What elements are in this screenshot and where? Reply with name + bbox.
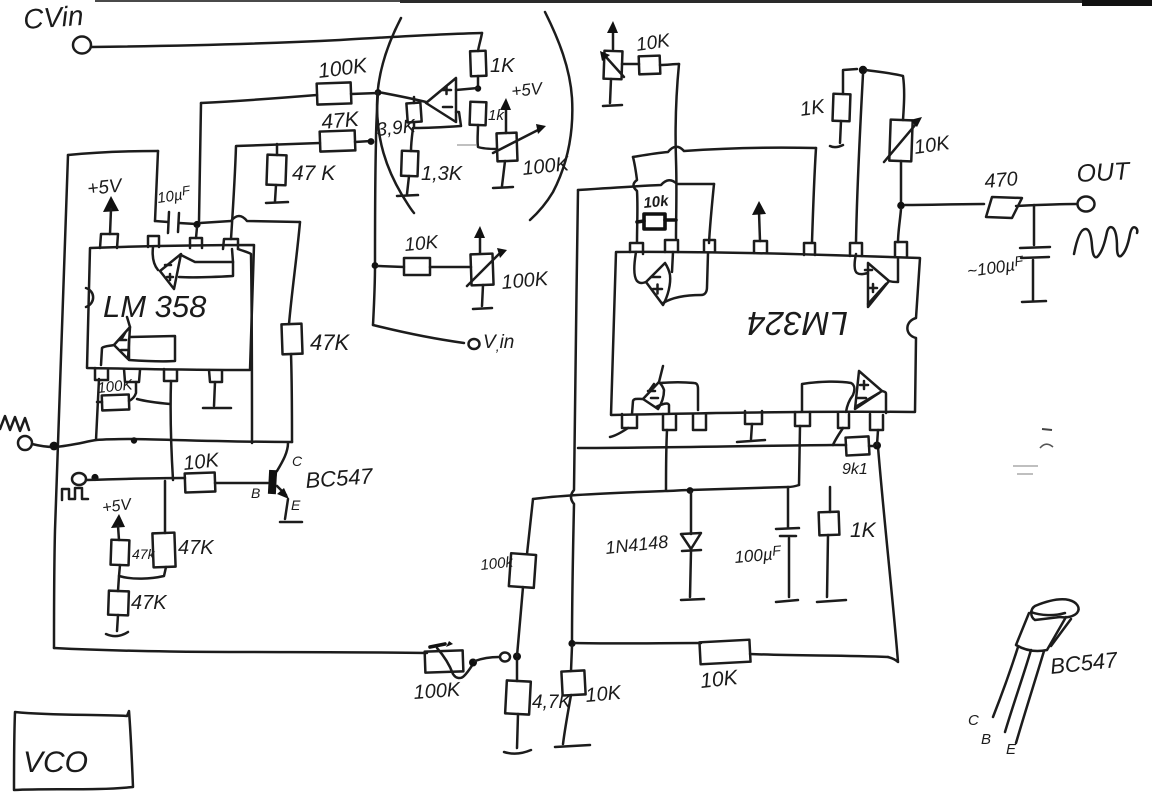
- wire P2 ground: [482, 285, 483, 306]
- node 9k1: [873, 442, 881, 450]
- wire inner box top edge: [633, 147, 816, 157]
- resistor R5 1.3K: [411, 128, 413, 151]
- wire pin2 to cap node: [196, 227, 197, 238]
- pin LM324 top6: [850, 243, 862, 256]
- pin LM324 top2: [665, 240, 678, 252]
- wire square out to R11: [86, 478, 185, 480]
- resistor R13 47K: [152, 533, 175, 568]
- resistor R12 47K small: [111, 540, 130, 566]
- svg-text:VCO: VCO: [23, 746, 88, 779]
- capacitor C3 100uF out: [1033, 205, 1036, 245]
- wire P4 to open circle: [475, 657, 499, 661]
- wire 1k to pot P1: [478, 125, 497, 149]
- ground R7: [266, 202, 288, 203]
- pin LM324 bot2: [663, 414, 676, 430]
- node op+: [475, 85, 481, 91]
- node square out: [91, 474, 98, 481]
- svg-text:C: C: [292, 453, 303, 469]
- transistor Q1 BC547: [277, 443, 288, 471]
- IC U2 LM324 box: [611, 252, 920, 415]
- ground C2: [776, 600, 798, 602]
- pin LM324 top1: [630, 243, 643, 254]
- pin LM324 bot4: [745, 411, 762, 424]
- svg-text:CVin: CVin: [22, 0, 84, 35]
- smudge marks: [1042, 429, 1052, 430]
- wire CVin to 1K top: [91, 33, 482, 47]
- resistor R3 1K: [470, 51, 486, 77]
- svg-text:470: 470: [984, 168, 1019, 193]
- pin LM358 bot1: [95, 368, 108, 380]
- wire 1K drop: [478, 33, 482, 51]
- VCO title box: [14, 711, 133, 790]
- svg-text:+5V: +5V: [510, 79, 544, 101]
- pin LM358 top4: [223, 239, 238, 249]
- resistor R15 100K vertical: [509, 553, 536, 588]
- terminal small: [500, 653, 510, 662]
- node top right: [859, 66, 867, 74]
- wire pin2 bot down: [666, 430, 667, 490]
- svg-text:LM324: LM324: [747, 305, 848, 342]
- svg-text:10k: 10k: [643, 192, 670, 212]
- resistor R9 47K vertical: [281, 324, 302, 355]
- op-amp U2D: [855, 371, 882, 409]
- node on box edge: [50, 442, 59, 451]
- wire pin4 ground stem: [214, 382, 215, 406]
- wire P1 to ground: [502, 161, 505, 186]
- resistor R16 4.7K: [516, 660, 519, 681]
- ground R14: [106, 632, 128, 636]
- node bottom left LM324: [568, 640, 575, 647]
- ground R19: [817, 600, 846, 602]
- svg-text:100k: 100k: [480, 554, 516, 574]
- svg-text:V,in: V,in: [483, 332, 514, 354]
- svg-text:47 K: 47 K: [292, 162, 336, 185]
- svg-text:E: E: [291, 497, 301, 513]
- pin LM358 top2: [148, 236, 159, 247]
- wire pin5 bot down: [799, 426, 800, 485]
- potentiometer P1 100K: [497, 133, 518, 162]
- svg-text:1,3K: 1,3K: [421, 163, 464, 185]
- svg-text:BC547: BC547: [305, 463, 375, 493]
- ellipse arc right: [530, 12, 572, 220]
- pin LM358 bot4: [209, 370, 222, 382]
- resistor R4 3.9K: [413, 97, 416, 103]
- resistor R18 10K bottom: [699, 640, 750, 665]
- wire inner box left edge: [633, 157, 637, 242]
- resistor R6 1k vertical: [470, 102, 487, 126]
- wire U1A feedback loop: [179, 255, 233, 277]
- op-amp U2B: [868, 263, 889, 307]
- wire R12-R13 bottom link: [119, 565, 166, 579]
- terminal OUT: [1078, 197, 1095, 212]
- wire sawtooth node row: [32, 439, 292, 447]
- svg-text:1K: 1K: [799, 96, 828, 121]
- node after P4: [469, 659, 477, 667]
- wire 1K to node: [477, 76, 480, 88]
- wire pin4 bot ground: [751, 424, 752, 439]
- svg-text:1K: 1K: [490, 55, 516, 77]
- wire R18 to right edge: [750, 654, 888, 657]
- wire pin3 down: [171, 381, 173, 480]
- svg-text:B: B: [981, 731, 991, 748]
- ground R16: [504, 750, 531, 754]
- ground D1: [681, 599, 704, 600]
- wire R2 left to LM358 pin: [231, 143, 320, 239]
- wire long mid horizontal: [533, 485, 799, 499]
- wire node A down through node B to pot row: [373, 92, 378, 325]
- svg-text:E: E: [1006, 741, 1017, 758]
- wire bottom edge to R18: [575, 642, 701, 645]
- resistor R19 1K vertical: [829, 487, 832, 512]
- wire 9k1 row: [578, 445, 833, 448]
- resistor R22 9k1: [846, 436, 870, 455]
- pin LM324 bot7: [870, 414, 883, 430]
- wire +5V box right edge to 10uF: [155, 151, 158, 221]
- potentiometer P4 100K: [425, 650, 464, 672]
- wire cap node right with hop: [200, 216, 300, 223]
- terminal CVin: [73, 37, 91, 54]
- wire LM324 outer right edge: [878, 447, 898, 662]
- wire 470 to OUT: [1016, 204, 1076, 206]
- wire down to 47K R9: [289, 222, 300, 324]
- pin LM358 top1: [100, 234, 118, 248]
- wire to 470: [905, 204, 984, 205]
- IC U1 LM358 box: [87, 245, 254, 370]
- pin LM324 bot5: [795, 412, 810, 426]
- square wave output symbol: [62, 488, 88, 500]
- svg-text:100K: 100K: [501, 268, 551, 294]
- wire inner box right edge: [812, 148, 816, 242]
- wire left box left edge: [54, 155, 68, 648]
- svg-text:10K: 10K: [182, 449, 221, 475]
- wire node to pot P6: [866, 70, 904, 120]
- node B: [368, 138, 375, 145]
- wire opamp + input: [456, 88, 478, 90]
- pin LM324 top5: [804, 243, 815, 255]
- wire LM324 outer top edge: [578, 180, 714, 190]
- ground R17: [555, 745, 590, 747]
- wire LM358 right pin down: [238, 249, 252, 443]
- wire node up through R15: [517, 587, 523, 656]
- svg-text:100K: 100K: [413, 679, 463, 704]
- pin LM358 bot3: [164, 369, 177, 381]
- terminal square: [72, 473, 86, 485]
- potentiometer P2 100K: [470, 254, 493, 286]
- op-amp U1A: [160, 254, 181, 289]
- terminal Vin: [469, 339, 480, 349]
- wire pin1 bot stub: [610, 428, 628, 437]
- svg-text:LM 358: LM 358: [103, 289, 207, 324]
- potentiometer P6 10K: [889, 120, 912, 162]
- wire faint pencil segment: [457, 144, 476, 146]
- svg-text:10K: 10K: [404, 232, 441, 256]
- node cap out: [193, 221, 200, 228]
- svg-text:9k1: 9k1: [842, 461, 868, 478]
- svg-text:47K: 47K: [131, 592, 168, 614]
- svg-text:47K: 47K: [178, 537, 215, 559]
- resistor R7 47K vertical: [266, 155, 286, 186]
- pin LM358 top3: [190, 238, 202, 248]
- sawtooth output symbol: [0, 416, 29, 431]
- terminal sawtooth: [18, 436, 32, 450]
- pin LM324 bot6: [838, 413, 849, 428]
- svg-text:OUT: OUT: [1076, 157, 1132, 188]
- resistor R17 10K vertical: [571, 646, 572, 671]
- node mid row: [131, 437, 137, 443]
- resistor R8 10K mid: [372, 262, 379, 269]
- svg-text:10K: 10K: [699, 666, 740, 693]
- ground 1.3K: [397, 195, 418, 196]
- wire LM324 outer left edge: [571, 190, 578, 643]
- node A: [375, 89, 382, 96]
- wire pin6 bot to 9k1 row: [833, 428, 843, 445]
- svg-text:47K: 47K: [310, 330, 350, 355]
- wire left box bottom edge: [54, 648, 427, 653]
- wire outer top right drop: [709, 184, 714, 243]
- op-amp U2A: [646, 263, 670, 305]
- wire node to Vin jack: [373, 325, 464, 343]
- wire cap node up to R1 row: [199, 103, 201, 221]
- potentiometer P5: [604, 51, 623, 80]
- wire R1 left lead: [201, 95, 317, 103]
- ground LM324: [737, 440, 765, 442]
- wire R20 down to LM324 pin: [676, 64, 679, 238]
- power +5V arrow LM324: [759, 212, 760, 241]
- op-amp U1B: [114, 327, 130, 359]
- op-amp U1A: [426, 78, 456, 122]
- wire pin7 bot to node: [877, 430, 878, 445]
- wire U1A output to node: [378, 92, 426, 102]
- node main bottom: [513, 653, 521, 661]
- wire node down to pin7: [898, 209, 901, 242]
- ground P2: [473, 308, 492, 309]
- pin LM324 bot1: [622, 414, 637, 428]
- power arrow above P2: [479, 234, 482, 253]
- ground P1: [493, 187, 513, 188]
- resistor R14 47K bottom: [118, 576, 119, 591]
- wire U1B feedback loop: [129, 336, 175, 361]
- waveform sine icon: [1074, 227, 1137, 257]
- wire node down to LM324 pin6: [856, 74, 863, 242]
- pin LM324 top3: [704, 240, 715, 252]
- wire R13 top to square row: [164, 481, 167, 533]
- node OUT row: [897, 202, 905, 210]
- pin LM324 bot3: [693, 414, 706, 430]
- svg-text:B: B: [251, 485, 260, 501]
- svg-text:10K: 10K: [585, 682, 624, 707]
- pin LM324 top7: [895, 242, 907, 257]
- op-amp U2C: [643, 382, 664, 409]
- svg-text:1K: 1K: [850, 519, 877, 542]
- pin LM358 bot2: [124, 369, 140, 382]
- ground LM358: [203, 407, 231, 410]
- transistor package BC547 drawing: [1031, 599, 1078, 620]
- wire feedback to minus input: [414, 112, 461, 128]
- pin LM324 top4: [754, 241, 767, 253]
- wire 1.3K to ground: [407, 176, 409, 194]
- wire left box top edge: [68, 151, 158, 155]
- ellipse arc left: [377, 18, 414, 213]
- svg-text:C: C: [968, 712, 979, 729]
- svg-text:+5V: +5V: [86, 175, 125, 200]
- scan border top: [95, 0, 1152, 6]
